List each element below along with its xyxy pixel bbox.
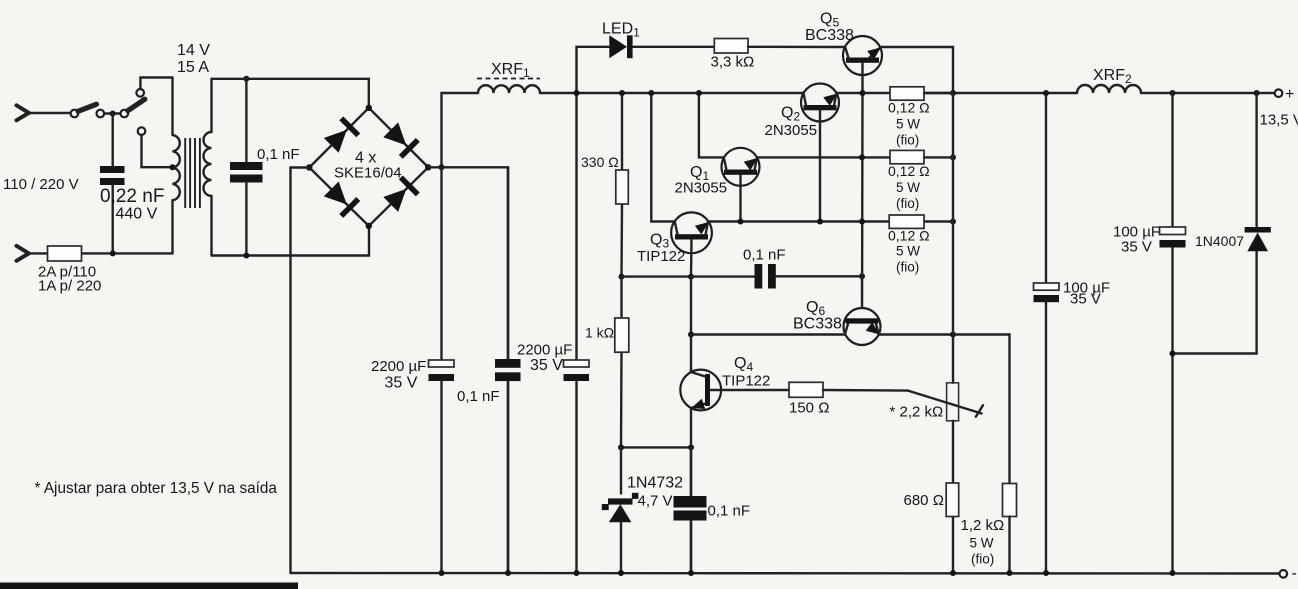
svg-text:0,1 nF: 0,1 nF (743, 247, 786, 264)
transformer T1 primary lead bottom (171, 200, 173, 253)
transistor Q4 TIP122 (680, 370, 721, 414)
node bottom rail zener (618, 570, 624, 576)
wire Q6 row left segment (691, 333, 845, 335)
inductor XRF1 (478, 85, 540, 93)
svg-text:14 V: 14 V (177, 42, 210, 59)
node rail at Q1 branch (696, 90, 702, 96)
svg-text:TIP122: TIP122 (722, 373, 770, 390)
AC input terminal top (17, 105, 29, 120)
wire bridge left corner to negative vertical (291, 166, 310, 168)
svg-text:0,12 Ω: 0,12 Ω (888, 100, 930, 116)
output terminal minus (1280, 570, 1288, 578)
wire Q1 collector branch (699, 93, 724, 157)
capacitor C 0,1nF (Q4 emitter) leads (690, 447, 693, 573)
wire resistor to Q5 (748, 46, 845, 49)
switch S1a blade (78, 104, 97, 111)
svg-text:440 V: 440 V (116, 206, 158, 223)
wire LED branch corner (577, 47, 610, 93)
transistor Q5 BC338 (843, 36, 884, 75)
svg-text:0,12 Ω: 0,12 Ω (888, 163, 930, 179)
svg-text:0,1 nF: 0,1 nF (708, 503, 751, 520)
bridge diode bottom-right (382, 175, 419, 212)
wire bridge right corner horizontal (428, 166, 508, 168)
resistor R 330Ω (616, 170, 629, 204)
node Q3 base junction (688, 274, 694, 280)
node bottom rail 1,2k (1007, 570, 1013, 576)
node emitter row at right column (950, 154, 956, 160)
wire capacitor to bottom (111, 185, 113, 253)
resistor R 3,3 kΩ (714, 39, 748, 54)
wire switch to transformer primary top (140, 78, 172, 90)
bridge rectifier 4x SKE16/04 diamond (309, 108, 428, 226)
capacitor C 0,1nF (mid) (495, 359, 521, 368)
transformer T1 secondary lead bottom (210, 196, 212, 256)
svg-text:4,7 V: 4,7 V (638, 493, 673, 510)
wire bottom rail (291, 572, 1280, 575)
svg-text:150 Ω: 150 Ω (789, 400, 829, 417)
svg-text:5 W: 5 W (970, 536, 994, 551)
svg-text:35 V: 35 V (385, 375, 418, 392)
resistor R 680Ω (946, 483, 959, 517)
node 0,1nF to base column (859, 273, 865, 279)
svg-text:3,3 kΩ: 3,3 kΩ (711, 53, 755, 70)
svg-text:+: + (1285, 86, 1294, 103)
node bottom rail 2200µF second (574, 570, 580, 576)
capacitor C 2200µF 35V (second) leads (575, 93, 577, 573)
transformer T1 primary winding (173, 135, 180, 200)
diode D 1N4007 (1245, 227, 1271, 233)
node emitter row at base column (859, 154, 865, 160)
node rail at Q3 branch (648, 90, 654, 96)
bottom-left scan bar (0, 583, 298, 589)
wire Q3 collector branch (651, 93, 674, 222)
capacitor C 0,1nF (horizontal) (755, 264, 763, 289)
node bottom rail 0,1nF Q4 (688, 570, 694, 576)
resistor R 0,12Ω first (890, 87, 924, 100)
svg-text:BC338: BC338 (793, 316, 842, 333)
wire switch mid segment (104, 112, 121, 114)
transistor Q2 2N3055 (801, 84, 841, 122)
transistor Q1 2N3055 (722, 148, 762, 186)
bridge diode top-left (323, 116, 360, 153)
node 330/1k junction (619, 274, 625, 280)
node bottom rail right column (950, 570, 956, 576)
node primary tap (170, 164, 176, 170)
node zener row left (618, 444, 624, 450)
wire LED to resistor (633, 46, 715, 48)
diode D 1N4007 leads (1173, 93, 1257, 354)
node base row at base column (859, 219, 865, 225)
svg-text:-: - (1292, 565, 1297, 582)
wire main positive rail right of Q2 (837, 92, 1077, 94)
node Q6 row left (688, 332, 694, 338)
capacitor C 0,1nF (secondary) (230, 162, 263, 170)
zener diode 1N4732 4,7V leads (620, 447, 622, 573)
wire 0,1nF bottom lead (245, 183, 247, 256)
capacitor C 100µF 35V (first) leads (1045, 93, 1047, 573)
svg-text:BC338: BC338 (805, 27, 854, 44)
resistor R 0,12Ω third (889, 215, 924, 228)
svg-text:(fio): (fio) (971, 552, 994, 567)
bridge diode top-right (382, 121, 419, 158)
LED LED1 (609, 35, 627, 58)
wire 0,1nF top lead (245, 79, 247, 162)
node switch junction (110, 111, 116, 117)
node bottom rail 100µF first (1043, 570, 1049, 576)
bridge diode bottom-left (323, 180, 360, 217)
wire AC top to switch (29, 112, 71, 114)
zener diode 1N4732 (602, 493, 639, 523)
wire rail right of XRF2 (1141, 92, 1275, 94)
resistor R 1,2kΩ 5W (1003, 484, 1017, 517)
resistor R 0,12Ω second (890, 150, 924, 163)
svg-text:330 Ω: 330 Ω (581, 154, 619, 170)
capacitor C 100µF 35V (second) leads (1171, 93, 1173, 573)
wire secondary bottom to bridge (212, 229, 370, 256)
wire Q5 collector to right column (881, 47, 954, 93)
wire Q1 emitter row (757, 156, 890, 158)
svg-text:SKE16/04: SKE16/04 (334, 165, 402, 182)
transistor Q6 BC338 (844, 308, 883, 345)
svg-text:0,1 nF: 0,1 nF (257, 146, 300, 163)
transformer T1 primary lead top (171, 78, 173, 136)
wire right column vertical (952, 93, 954, 573)
svg-text:0,22 nF: 0,22 nF (100, 186, 164, 207)
wire base column Q5-Q6 (861, 93, 864, 335)
wire 1,2k to bottom rail (1008, 517, 1010, 574)
wire Q6 row to 1,2k corner (953, 335, 1010, 484)
switch S1a contact circles (71, 110, 79, 118)
svg-text:2N3055: 2N3055 (675, 180, 728, 197)
fuse 2A/1A (48, 246, 82, 261)
capacitor C 0,1nF (Q4 emitter) (674, 496, 707, 508)
wire negative vertical left column (289, 168, 291, 574)
svg-text:680 Ω: 680 Ω (904, 492, 944, 509)
capacitor C 2200µF 35V (first) (429, 360, 455, 367)
wire switch to transformer tap (142, 135, 171, 167)
node bridge right corner (425, 164, 431, 170)
transformer T1 core (185, 138, 200, 208)
node base row at Q2 (817, 219, 823, 225)
capacitor C 0,1nF (mid) leads (507, 167, 510, 573)
wire Q3 base to Q4 collector (690, 277, 692, 372)
node rail at 100µF second (1170, 90, 1176, 96)
svg-text:0,1 nF: 0,1 nF (457, 388, 500, 405)
capacitor C 2200µF 35V (second) (564, 360, 590, 367)
wire Q3 emitter row (708, 220, 889, 222)
switch S1b contact circles (121, 110, 129, 118)
svg-text:13,5 V: 13,5 V (1260, 112, 1298, 129)
switch S1b blade (128, 99, 145, 111)
transformer T1 secondary lead top (210, 79, 212, 132)
svg-text:1N4007: 1N4007 (1195, 233, 1244, 249)
wire bridge plus up to XRF1 (442, 93, 479, 167)
node base row at Q1 (738, 219, 744, 225)
svg-text:2200 µF: 2200 µF (517, 342, 572, 359)
wire Q4 emitter down (690, 408, 692, 447)
svg-text:1 kΩ: 1 kΩ (585, 325, 614, 341)
wire main positive rail (540, 92, 803, 94)
node 0,1nF top (243, 76, 249, 82)
resistor R 330Ω leads (620, 93, 623, 277)
svg-text:2N3055: 2N3055 (765, 122, 818, 139)
wire Q5 base to rail (861, 63, 863, 93)
capacitor C 100µF 35V (second) (1160, 227, 1186, 235)
wire junction to Q3 base node (622, 275, 692, 277)
node bridge top corner (366, 105, 372, 111)
wire zener row (621, 446, 691, 448)
node bottom rail 2200µF first (439, 570, 445, 576)
wire Q1 base down (739, 175, 741, 222)
capacitor C 0,1nF (horizontal) wire left (691, 275, 755, 277)
node base row at right column (950, 219, 956, 225)
node bottom rail 100µF second (1170, 570, 1176, 576)
svg-text:(fio): (fio) (896, 133, 919, 148)
node rail at LED branch (574, 90, 580, 96)
svg-text:0,12 Ω: 0,12 Ω (888, 228, 930, 244)
wire Q4 base to 150Ω (721, 389, 789, 391)
resistor R 0,12Ω third leads (924, 93, 953, 222)
potentiometer R 2,2kΩ body (947, 383, 959, 421)
capacitor C 0,1nF (horizontal) wire right (776, 275, 862, 277)
wire Q3 base down (690, 240, 693, 277)
wire AC bottom line (29, 252, 173, 254)
wire 150Ω to wiper (823, 389, 908, 392)
svg-text:* Ajustar para obter 13,5 V na: * Ajustar para obter 13,5 V na saída (35, 480, 278, 497)
svg-text:35 V: 35 V (1070, 291, 1101, 308)
svg-text:2200 µF: 2200 µF (371, 358, 426, 375)
wire junction down to capacitor (111, 114, 113, 167)
transistor Q3 TIP122 (671, 212, 712, 253)
node bottom rail 0,1nF mid (505, 570, 511, 576)
svg-text:1,2 kΩ: 1,2 kΩ (961, 517, 1005, 534)
svg-text:* 2,2 kΩ: * 2,2 kΩ (890, 404, 944, 421)
node rail at 100µF first (1043, 90, 1049, 96)
capacitor C 2200µF 35V (first) leads (440, 167, 442, 360)
svg-text:5 W: 5 W (896, 244, 920, 259)
node rail at 330Ω (619, 90, 625, 96)
svg-text:35 V: 35 V (530, 357, 563, 374)
resistor R 1kΩ (615, 318, 629, 352)
transformer T1 secondary winding (204, 132, 212, 196)
svg-text:35 V: 35 V (1121, 239, 1152, 256)
svg-text:110 / 220 V: 110 / 220 V (3, 176, 79, 193)
node Q6 row at right column (950, 332, 956, 338)
potentiometer wiper arrow (908, 391, 983, 417)
svg-text:1N4732: 1N4732 (627, 475, 683, 492)
node rail at right column (950, 90, 956, 96)
svg-text:5 W: 5 W (896, 117, 920, 132)
svg-text:5 W: 5 W (896, 180, 920, 195)
node bridge left corner (306, 164, 312, 170)
wire Q2 base down (819, 110, 821, 221)
resistor R 1kΩ leads (620, 277, 623, 448)
node bridge bottom corner (366, 223, 372, 229)
svg-text:1A p/ 220: 1A p/ 220 (38, 278, 101, 295)
XRF1 dashed underline (477, 78, 540, 80)
svg-text:15 A: 15 A (177, 59, 209, 76)
wire Q6 emitter row right (879, 333, 953, 335)
node plus junction (439, 164, 445, 170)
node 0,1nF bottom (243, 253, 249, 259)
node rail at 1N4007 (1254, 90, 1260, 96)
svg-text:TIP122: TIP122 (637, 248, 685, 265)
AC input terminal bottom (17, 246, 29, 261)
wire secondary top to bridge (212, 79, 369, 105)
node rail at base column (860, 90, 866, 96)
capacitor C 100µF 35V (first) (1034, 283, 1060, 290)
resistor R 150Ω (789, 382, 823, 397)
svg-text:(fio): (fio) (896, 260, 919, 275)
node fuse line junction (110, 250, 116, 256)
svg-text:(fio): (fio) (896, 196, 919, 211)
output terminal plus (1275, 89, 1283, 97)
node 1N4007 to cap junction (1170, 351, 1176, 357)
inductor XRF2 (1077, 85, 1141, 93)
node zener row right (688, 444, 694, 450)
capacitor C 0,22nF 440V (100, 166, 125, 173)
